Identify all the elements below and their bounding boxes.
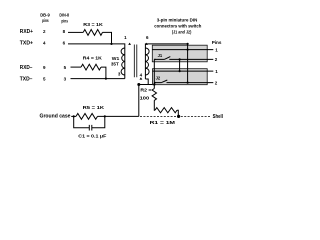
capacitor C1 loop (74, 116, 105, 127)
svg-text:3-pin miniature DIN: 3-pin miniature DIN (157, 17, 198, 22)
resistor R5 (76, 114, 98, 120)
caption 3-pin miniature DIN connectors with switch (154, 17, 201, 34)
wire ground case to node (71, 115, 76, 117)
svg-text:8: 8 (63, 29, 66, 34)
svg-text:4: 4 (43, 40, 46, 45)
svg-text:R5 = 1K: R5 = 1K (83, 105, 105, 110)
svg-text:RXD+: RXD+ (20, 29, 33, 35)
header DIN-8 pins (59, 13, 69, 24)
J1 switch (154, 57, 170, 60)
J1 pin 2 line (169, 58, 213, 60)
J2 pin 2 line (167, 82, 214, 84)
svg-text:TXD–: TXD– (20, 77, 33, 83)
wire ground drop (138, 85, 140, 117)
dashed wire to shell (140, 115, 211, 117)
svg-text:R3 = 1K: R3 = 1K (83, 22, 103, 27)
transformer W1 winding label (111, 56, 120, 66)
J1 switch contact dot (154, 59, 156, 61)
svg-text:6: 6 (146, 35, 149, 40)
node V3 box corner (153, 83, 155, 85)
phase dot pin 1 (128, 43, 131, 45)
svg-text:2: 2 (43, 29, 46, 34)
phase dot pin 4 (140, 77, 143, 79)
svg-text:DIN-8: DIN-8 (59, 13, 69, 18)
svg-text:2: 2 (215, 80, 218, 85)
svg-text:J1: J1 (158, 53, 163, 58)
svg-text:(J1 and J2): (J1 and J2) (172, 30, 192, 35)
wire R3 to TXD+ net (103, 32, 112, 44)
svg-text:35T: 35T (111, 61, 119, 66)
svg-text:100: 100 (140, 95, 150, 100)
transformer W1 primary winding (121, 48, 125, 75)
wire R2 to R1 (153, 100, 156, 110)
svg-text:RXD–: RXD– (20, 65, 33, 71)
resistor R4 (81, 64, 101, 70)
vertical wire V3 switch common (153, 59, 155, 88)
resistor R3 (83, 30, 102, 36)
node V1 J1 pin1 (187, 49, 189, 51)
node V1 top (187, 43, 189, 45)
svg-text:4: 4 (140, 72, 143, 77)
svg-text:5: 5 (64, 65, 67, 70)
node pin4/ground (137, 83, 140, 86)
wire pin 6 to connector boxes (145, 44, 187, 79)
node V2 top (179, 58, 181, 60)
svg-text:1: 1 (124, 35, 127, 40)
J2 switch contact dot (154, 82, 156, 84)
wire TXD- row (71, 78, 125, 80)
node junction R3/TXD+ (110, 43, 112, 45)
svg-text:5: 5 (43, 77, 46, 82)
wire pin 4 bus (139, 84, 155, 86)
svg-text:R4 = 1K: R4 = 1K (83, 55, 103, 60)
node shell junction (177, 115, 180, 118)
svg-text:9: 9 (43, 65, 46, 70)
node V2 bottom (179, 70, 181, 72)
svg-text:2: 2 (215, 57, 218, 62)
svg-text:1: 1 (215, 47, 218, 52)
J1 pin 1 line (152, 49, 213, 51)
svg-text:pins: pins (61, 18, 68, 23)
header DB-9 pins (40, 12, 50, 23)
connector J2 box (153, 69, 208, 85)
wire R4 to TXD- net (101, 67, 106, 79)
J2 pin 1 line (153, 70, 214, 72)
resistor R2 (152, 89, 156, 101)
J2 switch (154, 80, 167, 83)
svg-text:6: 6 (63, 40, 66, 45)
svg-text:J2: J2 (156, 76, 161, 81)
vertical wire V1 (187, 44, 189, 83)
wire RXD- row (71, 66, 82, 68)
resistor R1 (155, 108, 177, 113)
wire TXD+ row (68, 44, 125, 79)
resistor R2 value label (140, 87, 152, 100)
svg-text:C1 = 0.1 μF: C1 = 0.1 μF (78, 133, 106, 138)
wire R1 to shell line (177, 110, 178, 116)
svg-text:3: 3 (118, 71, 121, 76)
phase dot pin 6 (145, 43, 148, 45)
svg-text:R2 =: R2 = (140, 87, 151, 92)
svg-text:1: 1 (215, 69, 218, 74)
wire pin 4 elbow (145, 79, 148, 85)
transformer W1 secondary winding (145, 48, 149, 75)
svg-text:W1: W1 (112, 56, 120, 61)
svg-text:Ground case: Ground case (40, 114, 71, 120)
svg-text:Shell: Shell (213, 114, 224, 120)
node junction R4/TXD- (105, 78, 107, 80)
node RC right (104, 115, 106, 117)
svg-text:Pins: Pins (212, 40, 222, 45)
capacitor C1 plates (89, 125, 92, 131)
svg-text:TXD+: TXD+ (20, 40, 33, 46)
wire R5 to ground bus (98, 115, 139, 117)
wire RXD+ row (68, 31, 83, 33)
connector J1 box (152, 45, 207, 62)
svg-text:pins: pins (42, 18, 49, 23)
vertical wire V2 (179, 59, 181, 71)
svg-text:DB-9: DB-9 (40, 12, 50, 17)
svg-text:R1 = 1M: R1 = 1M (150, 120, 176, 125)
node RC left (73, 115, 75, 117)
svg-text:connectors with switch: connectors with switch (154, 23, 201, 28)
svg-text:3: 3 (64, 77, 67, 82)
node V1 J2 pin2 (187, 82, 189, 84)
transformer core (134, 45, 137, 78)
